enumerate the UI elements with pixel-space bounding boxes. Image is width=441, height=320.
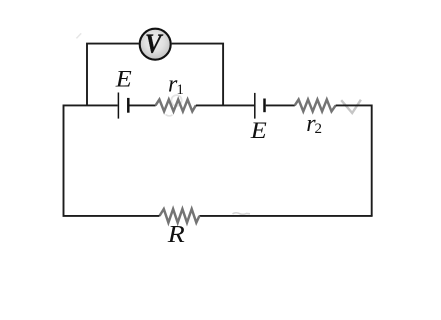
voltmeter U1 <box>140 29 171 60</box>
resistor r1 <box>156 100 196 112</box>
wire bottom right segment <box>199 215 372 217</box>
resistor r2 <box>295 100 336 112</box>
ghost squiggle artifact on bottom wire <box>233 213 251 215</box>
wire bottom left segment and left side up <box>64 105 160 216</box>
resistor R <box>160 209 200 223</box>
ghost diagonal artifact top-left <box>76 33 81 38</box>
wire between battery 2 and resistor r2 <box>266 104 295 106</box>
battery E1 long plate <box>117 93 119 119</box>
svg-text:r2: r2 <box>306 111 322 137</box>
battery E2 short plate <box>263 99 266 113</box>
svg-text:E: E <box>250 118 267 143</box>
wire between battery 1 and resistor r1 <box>130 104 156 106</box>
wire voltmeter branch left: up from main wire and across to meter <box>87 44 139 106</box>
svg-text:E: E <box>115 67 132 92</box>
ghost zigzag artifact after r2 <box>341 100 361 113</box>
wire between r1 and battery 2 (junction with voltmeter branch) <box>196 104 254 106</box>
svg-text:r1: r1 <box>168 72 184 98</box>
ghost mark under r1 <box>166 115 173 116</box>
wire main left segment to battery 1 <box>64 104 118 106</box>
svg-text:R: R <box>167 222 186 248</box>
battery E1 short plate <box>127 98 130 113</box>
wire voltmeter branch right: from meter across and down to main wire <box>172 44 224 106</box>
ghost ring artifact near r1 <box>171 95 181 106</box>
battery E2 long plate <box>254 93 256 119</box>
wire from r2 to top-right corner and down right side <box>336 105 372 215</box>
svg-text:V: V <box>145 29 163 59</box>
